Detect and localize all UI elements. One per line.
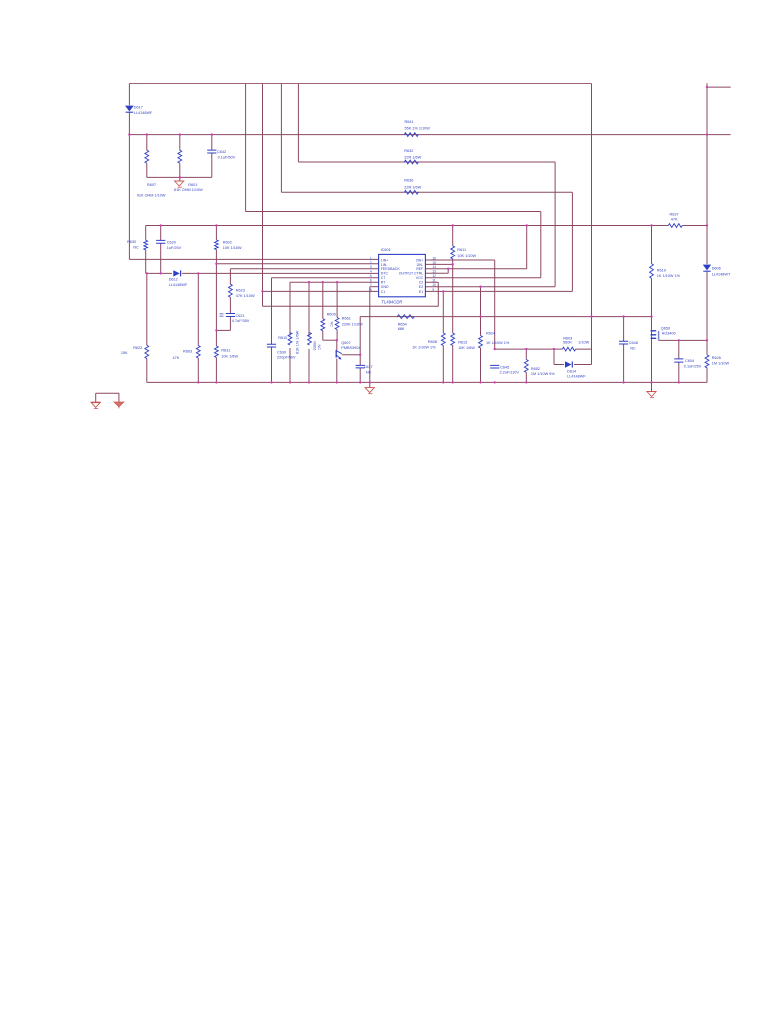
wire D606 net vertical x707 [706,87,708,340]
svg-text:C1: C1 [381,290,386,294]
capacitor C620 [156,240,165,243]
svg-text:220pF/50V: 220pF/50V [277,356,296,360]
wire pin3 row [230,268,378,270]
svg-text:1M 1/10W 5%: 1M 1/10W 5% [531,372,555,376]
svg-text:R654: R654 [398,322,407,326]
label R602 [223,240,242,250]
svg-text:C617: C617 [364,365,373,369]
svg-text:R602: R602 [223,240,232,244]
junction dots [128,86,708,384]
svg-text:7: 7 [370,283,372,287]
capacitor C642 [207,150,216,153]
svg-text:R608: R608 [428,340,437,344]
wire main bus y134 [129,134,730,136]
label R663 [173,350,193,360]
capacitor C617 [356,365,365,368]
svg-text:91K OHM 1/10W: 91K OHM 1/10W [137,194,166,198]
svg-text:DTC: DTC [381,272,389,276]
label D617 [134,106,153,116]
label R623 [236,288,255,298]
svg-text:R631: R631 [221,348,230,352]
svg-text:R613: R613 [458,340,467,344]
resistor R667 (91K) [145,150,149,163]
wire C646 net [623,317,625,383]
label R613 [458,340,475,350]
transistor Q607 [336,350,342,360]
wire GND pin net [369,287,371,388]
resistor R608 [441,333,445,345]
svg-text:OUTPUT CTRL: OUTPUT CTRL [399,272,423,276]
svg-text:IC601: IC601 [381,248,391,252]
svg-text:0.1uF/50V: 0.1uF/50V [218,155,236,159]
label Q607 [341,341,360,350]
op-amp U1 IC601 TL494 box [379,254,426,296]
svg-text:3: 3 [370,265,372,269]
label R622 [121,346,142,355]
wire R619 gate net [651,226,653,392]
ground chassis at mosfet rail [647,392,656,398]
diode D617 [125,106,134,113]
svg-text:22R 1/6W: 22R 1/6W [404,156,421,160]
resistor R624 [479,336,483,348]
label C646 [629,341,638,350]
wire pin5 CT row [272,277,379,279]
wire pin14 REF row [425,268,526,270]
ground chassis at GND pin net [365,388,374,394]
svg-text:D614: D614 [567,369,576,373]
node subcircuit verticals [147,135,212,181]
wire R610 net [289,282,291,382]
svg-text:R652: R652 [531,367,540,371]
wire pin2 row [216,263,378,265]
svg-text:R630: R630 [127,240,136,244]
label R632 [404,149,421,160]
resistor R613 [451,333,455,345]
svg-text:13: 13 [432,270,436,274]
svg-text:R606: R606 [312,341,316,350]
wire pin7 GND row [370,286,379,288]
wire D614 row [554,349,592,364]
label R652 [531,367,555,376]
wire R602 R631 net [215,226,217,383]
resistor R609 [321,319,325,331]
label C604 [684,359,702,368]
svg-text:LL4148WF: LL4148WF [169,283,188,287]
svg-text:R663: R663 [183,350,192,354]
wire C620 net [160,226,162,274]
svg-text:1IN-: 1IN- [381,263,388,267]
resistor R661 [335,318,339,330]
capacitor C645 [490,365,499,368]
svg-text:55K 1% 1/10W: 55K 1% 1/10W [405,127,431,131]
wire top faint bus [129,83,591,85]
svg-text:6: 6 [370,279,372,283]
svg-text:1K 1/10W 1%: 1K 1/10W 1% [486,341,510,345]
ground chassis under R601 rail [175,181,184,187]
wire R606 net [308,282,310,382]
svg-text:10K 1/6W: 10K 1/6W [458,346,475,350]
wire hook vertical x298 [297,84,299,163]
svg-text:R619: R619 [657,268,666,272]
svg-text:68K: 68K [398,327,405,331]
wire Q650 drain row [659,339,707,341]
wire subcircuit bottom rail [147,176,212,178]
svg-text:R624: R624 [486,331,495,335]
svg-text:AO3400: AO3400 [662,332,676,336]
wire pin9 E1 row [425,290,572,292]
svg-text:R641: R641 [405,120,414,124]
svg-text:D606: D606 [712,267,721,271]
svg-text:560K: 560K [563,341,572,345]
svg-text:10K 1/6W: 10K 1/6W [221,354,238,358]
label R636 [404,179,421,190]
resistor R636 [404,190,418,194]
wire pin15 row [425,263,452,265]
wire pin6 RT row [290,281,379,283]
label D606 [712,267,731,277]
svg-text:R610: R610 [278,336,287,340]
svg-text:10K 1/16W: 10K 1/16W [223,246,242,250]
svg-text:GND: GND [381,285,389,289]
svg-text:8: 8 [370,288,372,292]
svg-text:47K: 47K [671,218,678,222]
label C645 [500,365,520,374]
svg-text:R661: R661 [342,317,351,321]
svg-text:1K 1/10W 1%: 1K 1/10W 1% [657,274,681,278]
svg-text:15K: 15K [121,351,128,355]
ground power left pair filled [114,402,124,408]
wire R608 net [442,291,444,382]
resistor R623 [228,284,232,297]
label IC601 pin names and numbers [370,248,436,305]
label R641 [405,120,431,131]
svg-text:TL494CDR: TL494CDR [382,299,403,304]
resistor R637 [668,224,682,228]
wire E2 riser [554,162,556,287]
svg-text:LL4148WF: LL4148WF [567,374,586,378]
wire gate bus y316 [360,317,651,355]
resistor R632 [404,160,418,164]
svg-text:PMBS3904: PMBS3904 [341,346,360,350]
svg-text:LL4148WT: LL4148WT [712,273,731,277]
svg-text:NC: NC [330,322,334,328]
label R631 [221,348,238,358]
svg-text:47K: 47K [173,356,180,360]
label R611 [457,248,476,258]
wire R636 row [281,191,572,193]
wire pin13 hook [425,269,448,273]
svg-text:REF: REF [416,267,423,271]
wire E1 riser [571,192,573,291]
diode D612 [173,270,180,276]
wire Q607 emitter net [336,359,338,383]
svg-text:22R 1/6W: 22R 1/6W [404,186,421,190]
svg-text:R611: R611 [457,248,466,252]
wire pin16 row [425,259,494,261]
label R619 [657,268,681,277]
wire pin8 C1 row [263,290,379,292]
svg-text:5: 5 [370,274,372,278]
wire ground pair link [96,393,119,402]
wire R624 net [480,287,482,383]
svg-text:2.2uF/110V: 2.2uF/110V [500,370,520,374]
label C630 [277,351,296,360]
svg-text:81K 1% 1/6W: 81K 1% 1/6W [295,330,299,354]
svg-text:VCC: VCC [416,276,424,280]
wire left verticals top [128,84,130,260]
svg-text:C604: C604 [685,359,694,363]
svg-text:9: 9 [432,288,434,292]
resistor R606 [308,333,312,345]
wire R663 net [197,273,199,382]
resistor R619 [650,264,654,279]
wire C630 net [271,278,273,383]
svg-text:C646: C646 [629,341,638,345]
label R610 [278,330,299,354]
svg-text:2: 2 [370,261,372,265]
wire hook vertical x262 [262,84,264,307]
capacitor C630 [267,344,276,347]
svg-text:NC: NC [630,346,636,350]
wire pin4 DTC row [147,272,379,274]
svg-text:C620: C620 [167,240,176,244]
label R603 [563,336,590,344]
ground chassis left pair open [91,402,101,408]
resistor R603 [562,347,575,351]
wire C621 bottom elbow [216,317,230,331]
wire REF riser [526,226,528,269]
svg-text:10K 1/10W: 10K 1/10W [457,254,476,258]
label D614 [567,369,586,378]
svg-text:NC: NC [133,246,139,250]
label R654 [398,322,407,331]
wire R626 net [706,340,708,382]
wire R609 net [322,282,324,340]
svg-text:E1: E1 [419,290,423,294]
label R637 [670,212,679,221]
svg-text:R609: R609 [327,313,336,317]
wire pin12 VCC row [425,277,540,279]
label R661 [342,317,363,327]
svg-text:R622: R622 [133,346,142,350]
wire Q607 base link [323,339,337,341]
svg-text:C2: C2 [419,281,424,285]
capacitor C646 [619,341,628,344]
wire top right stub [707,83,731,87]
svg-text:Q650: Q650 [661,327,670,331]
wire R611 R613 net [452,226,454,383]
wire pin11 C2 hook [425,282,438,306]
svg-text:1K 1/10W 1%: 1K 1/10W 1% [412,345,436,349]
svg-text:D612: D612 [169,278,178,282]
wire REF bus [146,225,707,227]
svg-text:C645: C645 [500,365,509,369]
label R609 [327,313,336,328]
svg-text:0.1uF/25V: 0.1uF/25V [684,365,702,369]
resistor R630 [144,240,148,249]
label C620 [167,240,182,250]
wire R661 net [336,282,338,350]
svg-text:15: 15 [432,261,436,265]
label R607 R601 values [137,183,203,198]
svg-text:FEEDBACK: FEEDBACK [381,267,401,271]
svg-text:1: 1 [370,256,372,260]
wire C617 net [359,355,361,383]
label C621 [232,314,250,323]
svg-text:1IN+: 1IN+ [381,258,389,262]
label R624 [486,331,510,345]
svg-text:C642: C642 [217,150,226,154]
svg-text:R632: R632 [404,149,413,153]
svg-text:2IN-: 2IN- [417,263,424,267]
svg-text:1/10W: 1/10W [578,341,589,345]
wire sense node row y349 [495,348,592,350]
svg-text:NC: NC [366,371,372,375]
svg-text:C630: C630 [277,351,286,355]
wire R632 row [298,161,555,163]
wire R652 net [525,349,527,382]
resistor R641 [404,133,418,137]
wire C1C2 link row [263,305,439,307]
wire R622 net [146,273,148,382]
wire long vertical x589 [591,84,593,365]
label C617 [364,365,373,374]
svg-text:LL4148WF: LL4148WF [134,111,153,115]
wire pin10 E2 row [425,286,555,288]
svg-text:E2: E2 [419,285,423,289]
wire hook vertical x245 [245,84,247,212]
transistor Q650 [651,331,659,341]
svg-text:10: 10 [432,283,436,287]
svg-text:16: 16 [432,256,436,260]
label R630 [127,240,139,250]
label R608 [412,340,437,349]
resistor R611 [451,246,455,259]
wire C604 net [678,340,680,382]
svg-text:12: 12 [432,274,436,278]
label R606 [312,341,321,350]
svg-text:R601: R601 [188,183,197,187]
svg-text:R626: R626 [712,356,721,360]
svg-text:R636: R636 [404,179,413,183]
resistor R602 [214,240,218,250]
resistor R652 [524,360,528,373]
diode D606 [703,265,711,272]
svg-text:4.7uF/35V: 4.7uF/35V [232,319,250,323]
capacitor C621 [226,314,235,317]
svg-text:1M 1/10W: 1M 1/10W [712,362,730,366]
label D612 [169,278,188,288]
resistor R654 [397,315,414,319]
wire R623 C621 net [229,269,231,314]
svg-text:220K 1/10W: 220K 1/10W [342,323,363,327]
resistor R610 [288,333,292,345]
capacitor C604 [674,359,683,362]
svg-text:81K OHM 1/10W: 81K OHM 1/10W [174,188,203,192]
svg-text:Q607: Q607 [341,341,350,345]
svg-text:R607: R607 [147,183,156,187]
wire ground rail [147,381,707,383]
svg-text:NC: NC [317,345,321,351]
label C642 [217,150,236,159]
wire R630 net [145,226,147,274]
resistor R663 [196,346,200,358]
svg-text:47K 1/10W: 47K 1/10W [236,294,255,298]
wire Q607 collector link [342,354,360,356]
svg-text:4: 4 [370,270,372,274]
svg-text:R623: R623 [236,288,245,292]
wire pin1 row [129,258,378,260]
wire pin16 sense net [494,260,496,349]
svg-text:C621: C621 [236,314,245,318]
resistor R601 (81K) [178,150,182,163]
wire hook vertical x281 [280,84,282,193]
svg-text:2IN+: 2IN+ [416,258,424,262]
svg-text:D617: D617 [134,106,143,110]
label Q650 [661,327,676,336]
svg-text:R637: R637 [670,212,679,216]
wire VCC feed row [246,211,541,213]
svg-text:1uF/25V: 1uF/25V [167,246,182,250]
svg-text:14: 14 [432,265,436,269]
wire VCC riser [540,212,542,278]
resistor R626 [705,355,709,368]
label R626 [712,356,730,366]
resistor R631 [214,346,218,358]
svg-text:11: 11 [432,279,436,283]
resistor R622 [145,345,149,358]
diode D614 [565,361,572,367]
capacitor C621 polarity marks [220,314,224,317]
